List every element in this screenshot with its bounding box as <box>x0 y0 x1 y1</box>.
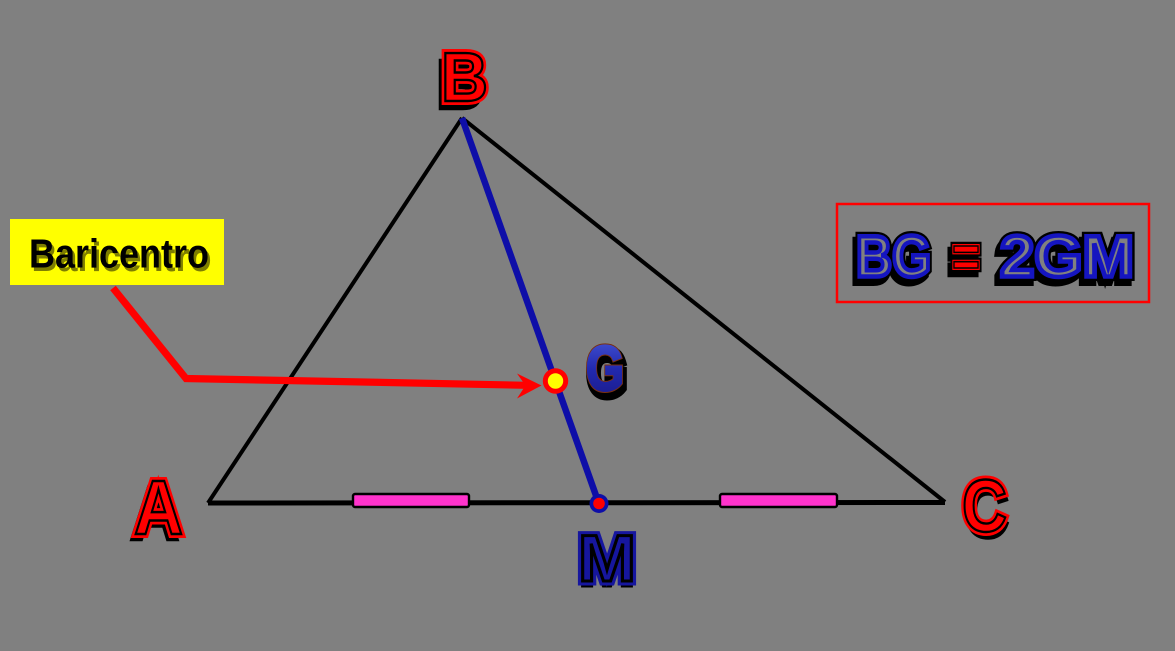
svg-text:G: G <box>586 334 624 404</box>
triangle side AB <box>208 118 462 503</box>
formula text BG <box>853 225 931 295</box>
svg-text:=: = <box>952 225 980 290</box>
svg-text:2GM: 2GM <box>1000 225 1134 290</box>
point M marker <box>590 494 609 513</box>
triangle base AC <box>208 500 945 506</box>
svg-text:BG: BG <box>856 225 931 290</box>
svg-text:Baricentro: Baricentro <box>29 231 209 277</box>
median BM (blue) <box>462 118 599 504</box>
triangle side BC <box>462 118 945 502</box>
vertex label B <box>436 38 488 124</box>
Baricentro callout box <box>10 219 224 285</box>
congruence mark on AM (pink bar) <box>353 494 469 507</box>
formula text 2GM <box>997 225 1134 295</box>
point G marker <box>543 368 568 393</box>
formula equals sign <box>949 225 980 295</box>
Baricentro text <box>29 231 212 281</box>
svg-text:B: B <box>441 38 488 116</box>
callout arrow (red) <box>113 288 542 399</box>
svg-text:C: C <box>962 465 1007 548</box>
svg-text:M: M <box>578 521 636 595</box>
formula box BG = 2GM <box>837 204 1149 302</box>
congruence mark on MC (pink bar) <box>720 494 837 507</box>
svg-text:A: A <box>134 465 183 551</box>
vertex label C <box>962 465 1009 554</box>
vertex label A <box>130 465 183 557</box>
midpoint label M <box>578 521 636 600</box>
centroid label G <box>586 334 626 409</box>
